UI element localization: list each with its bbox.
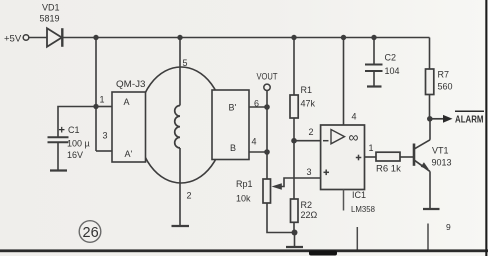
resistor R7 560 — [426, 69, 453, 95]
sensor QM-J3 envelope — [138, 67, 224, 183]
stray vertical segment right — [427, 224, 429, 253]
node R2 ground junction — [292, 230, 298, 236]
svg-text:3: 3 — [307, 167, 312, 177]
svg-text:100 µ: 100 µ — [67, 139, 90, 149]
svg-text:+5V: +5V — [4, 34, 22, 45]
wire sensor pin 4 — [249, 151, 267, 153]
wire pin1 node left to C1 — [58, 107, 96, 138]
op-amp IC1 LM358 — [321, 125, 376, 214]
wire rail to R1 — [293, 38, 295, 96]
diode VD1 5819 — [40, 3, 63, 47]
wire sensor pin 6 — [249, 106, 267, 108]
transistor VT1 9013 — [414, 140, 452, 172]
resistor R6 1k — [376, 152, 401, 174]
wire node to ground — [294, 233, 296, 248]
svg-text:+: + — [59, 125, 65, 137]
wire VT1 emitter down — [429, 171, 431, 209]
wire R7 to alarm node — [429, 95, 431, 119]
node rail junction x374 — [371, 35, 376, 40]
ground C1 — [50, 169, 67, 171]
wire op-amp bottom pin — [343, 190, 345, 211]
resistor R2 22ohm — [291, 199, 318, 222]
wire sensor pin 2 to ground — [179, 148, 181, 226]
ALARM output arrow — [430, 111, 484, 125]
capacitor C1 100u 16V — [48, 125, 90, 161]
svg-text:3: 3 — [103, 131, 108, 141]
figure number 26 — [79, 221, 101, 243]
wire top supply rail — [62, 37, 429, 39]
node rail junction x180 — [177, 35, 182, 40]
stray vertical segment below IC — [356, 227, 358, 252]
wire rail down to pin1 node — [95, 38, 97, 152]
svg-text:26: 26 — [83, 225, 99, 241]
svg-text:A: A — [124, 97, 130, 107]
svg-text:9013: 9013 — [432, 158, 452, 168]
resistor R1 47k — [290, 85, 316, 118]
svg-text:16V: 16V — [67, 150, 83, 160]
wire rail corner down to R7 — [429, 38, 431, 70]
node rail junction x343.5 — [341, 35, 346, 40]
wire rail to op-amp pin 4 — [343, 38, 345, 126]
wire C2 to ground — [373, 71, 375, 87]
node rail junction x294 — [291, 35, 296, 40]
svg-text:1: 1 — [369, 143, 374, 153]
svg-text:2: 2 — [309, 127, 314, 137]
svg-text:5819: 5819 — [40, 14, 60, 24]
svg-text:2: 2 — [187, 191, 192, 201]
potentiometer Rp1 10k — [236, 179, 271, 204]
node rail junction x96 — [93, 35, 98, 40]
wire pin2 node to op-amp — [294, 140, 321, 142]
wire C1 to ground — [57, 142, 59, 170]
svg-text:VD1: VD1 — [42, 3, 60, 13]
wire VT1 collector up — [429, 119, 431, 140]
svg-text:B': B' — [229, 103, 237, 113]
capacitor C2 104 — [365, 53, 400, 77]
svg-text:1: 1 — [100, 95, 105, 105]
ground VT1 emitter — [423, 208, 440, 210]
wire pin2 node down to R2 — [293, 141, 295, 199]
node pin4 junction — [264, 149, 270, 155]
svg-text:5: 5 — [183, 58, 188, 68]
svg-text:ALARM: ALARM — [455, 115, 484, 126]
wire R1 to pin2 node — [293, 118, 295, 141]
VOUT terminal — [257, 72, 278, 91]
svg-text:LM358: LM358 — [351, 204, 375, 214]
node pin6 junction — [264, 104, 270, 110]
wire op-amp output to R6 — [365, 156, 377, 158]
svg-text:4: 4 — [252, 137, 257, 147]
svg-text:R1: R1 — [301, 85, 313, 95]
wire rail to C2 — [373, 38, 375, 65]
svg-text:R7: R7 — [438, 70, 450, 80]
node alarm junction — [427, 116, 433, 122]
+5V power terminal — [4, 34, 29, 45]
wire Rp1 wiper to op-amp pin 3 — [282, 178, 321, 187]
sensor electrode plate B'/B — [212, 90, 249, 160]
svg-text:4: 4 — [352, 112, 357, 122]
svg-text:QM-J3: QM-J3 — [116, 79, 146, 89]
svg-text:47k: 47k — [301, 99, 316, 109]
wire sensor pin 5 from rail — [179, 38, 181, 106]
node pin1 junction — [93, 104, 98, 109]
node pin2 junction — [291, 138, 297, 144]
heater coil inside QM-J3 — [175, 106, 180, 148]
svg-text:C2: C2 — [385, 53, 397, 63]
svg-text:VOUT: VOUT — [257, 72, 278, 82]
svg-text:VT1: VT1 — [432, 146, 449, 156]
svg-text:∞: ∞ — [349, 129, 359, 145]
svg-text:Rp1: Rp1 — [236, 179, 253, 189]
wire VOUT down to Rp1 — [266, 91, 268, 180]
svg-text:IC1: IC1 — [352, 190, 366, 200]
svg-text:B: B — [230, 143, 236, 153]
svg-text:A': A' — [125, 149, 133, 159]
wire Rp1 bottom to ground node — [267, 203, 295, 233]
svg-text:C1: C1 — [68, 125, 80, 135]
wire pin3 elbow to sensor pin 3 — [96, 150, 112, 152]
svg-text:22Ω: 22Ω — [301, 210, 318, 220]
svg-text:104: 104 — [385, 66, 400, 76]
svg-text:R6 1k: R6 1k — [376, 164, 401, 175]
svg-text:R2: R2 — [301, 200, 313, 210]
wire R2 to ground node — [293, 222, 295, 232]
svg-text:9: 9 — [446, 222, 451, 232]
sensor electrode plate A/A' — [112, 92, 146, 162]
wire pin1 node to sensor pin 1 — [96, 106, 112, 108]
svg-text:10k: 10k — [236, 194, 251, 204]
wire R6 to VT1 base — [400, 156, 413, 158]
Rp1 wiper arrow — [272, 183, 282, 190]
ground C2 — [367, 85, 382, 87]
svg-text:560: 560 — [438, 82, 453, 92]
ground R2 net — [286, 246, 303, 248]
ground sensor pin 2 — [172, 225, 190, 227]
wire +5V to diode — [29, 37, 47, 39]
